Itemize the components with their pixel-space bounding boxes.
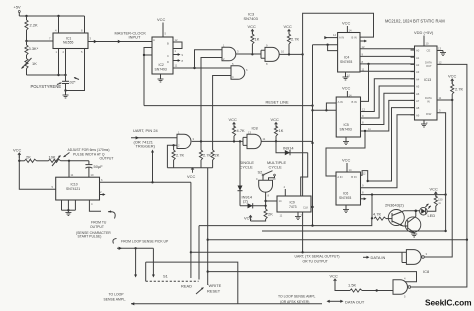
label SINGLE CYCLE <box>240 160 255 169</box>
svg-text:VCC: VCC <box>430 187 439 192</box>
wire pins 1,2 bottom <box>59 49 66 76</box>
svg-text:12: 12 <box>439 61 442 65</box>
svg-text:B: B <box>167 42 169 46</box>
svg-text:INPUT: INPUT <box>129 35 141 40</box>
svg-text:8: 8 <box>182 59 184 63</box>
svg-text:WRITE: WRITE <box>209 283 222 288</box>
counter IC6 SN7493 <box>336 172 361 205</box>
wire IC9 top pin 4 <box>284 185 286 196</box>
svg-text:TO LOOP: TO LOOP <box>109 293 125 297</box>
wire IC4 A-IN arrow stub <box>324 33 337 39</box>
wire to pin 7 <box>25 37 53 43</box>
svg-text:A8: A8 <box>416 106 420 110</box>
diode IN914 horizontal to gate output <box>240 203 266 208</box>
svg-text:IC5: IC5 <box>344 123 349 127</box>
svg-text:9: 9 <box>362 52 364 56</box>
memory IC13 MC2102 box <box>415 46 438 120</box>
wire IC2 QD output to gates <box>173 64 231 70</box>
nand IC8a input bracket <box>243 137 247 145</box>
transistor Q2 <box>403 217 421 233</box>
svg-text:1: 1 <box>175 49 177 53</box>
resistor 2K IC10 timing <box>19 154 48 162</box>
diode IN914 series <box>276 141 308 155</box>
wire clock jog up to IC4 <box>303 13 374 54</box>
wire IC10 trigger pin to TU input <box>89 200 115 219</box>
svg-text:1K: 1K <box>255 37 260 42</box>
counter IC4 SN7493 <box>338 33 360 73</box>
ground IC9 <box>280 212 303 220</box>
svg-text:C: C <box>167 54 169 58</box>
node master-clock input label <box>115 31 147 40</box>
svg-text:IC10: IC10 <box>71 183 78 187</box>
wire bus y231 <box>262 230 446 232</box>
svg-text:VCC: VCC <box>448 74 457 79</box>
svg-text:START PULSE): START PULSE) <box>78 235 102 239</box>
resistor 4.7K transistor base <box>373 212 392 221</box>
svg-text:LED: LED <box>428 213 436 218</box>
svg-text:READ: READ <box>181 284 192 289</box>
svg-text:SN7493: SN7493 <box>339 196 351 200</box>
svg-text:3: 3 <box>193 137 195 141</box>
svg-text:A IN: A IN <box>337 175 342 179</box>
svg-text:TO LOOP SENSE AMPL: TO LOOP SENSE AMPL <box>278 295 315 299</box>
resistor 1K pullup <box>248 24 260 54</box>
svg-text:8: 8 <box>362 60 364 64</box>
wire IC4 QD to RAM A3 <box>360 67 415 71</box>
ground Q2 emitter <box>411 233 417 238</box>
wire cascade IC5 to IC6 A-in <box>326 131 365 176</box>
svg-text:VCC: VCC <box>13 148 22 153</box>
svg-text:4: 4 <box>404 277 406 281</box>
svg-text:13: 13 <box>248 131 251 135</box>
svg-text:SN74121: SN74121 <box>66 187 80 191</box>
svg-text:A3: A3 <box>416 70 420 74</box>
wire IC4 QA stub arrow <box>360 40 367 43</box>
svg-text:2K: 2K <box>215 153 220 158</box>
svg-text:9: 9 <box>362 184 364 188</box>
VCC for IC4 <box>342 21 352 33</box>
wire data out bus y239.7 <box>208 239 468 241</box>
svg-text:8: 8 <box>268 194 270 198</box>
svg-text:S1: S1 <box>163 274 168 279</box>
label VDD <box>414 30 434 46</box>
resistor 150 LED supply <box>427 187 443 212</box>
svg-text:CLK: CLK <box>303 206 308 210</box>
wire IC3c output <box>279 53 303 55</box>
svg-text:VCC: VCC <box>342 21 351 26</box>
svg-text:10: 10 <box>281 50 284 54</box>
power VCC below 2K <box>244 216 253 222</box>
wire RAM R/W line <box>437 109 447 233</box>
wire IC9 clock stub <box>311 206 313 208</box>
svg-text:SeekIC.com: SeekIC.com <box>425 297 471 307</box>
svg-text:VCC: VCC <box>187 174 196 179</box>
wire IC2 QB stub <box>173 53 184 57</box>
svg-text:2.7K: 2.7K <box>291 37 300 42</box>
svg-text:+5V: +5V <box>14 5 22 10</box>
wire collector node to LED <box>404 210 420 217</box>
wire WRITE vertical v6 <box>207 168 222 294</box>
svg-text:MC2102, 1024 BIT STATIC RAM: MC2102, 1024 BIT STATIC RAM <box>385 19 445 24</box>
svg-text:VCC: VCC <box>342 86 351 91</box>
svg-text:7473: 7473 <box>289 205 297 209</box>
nand IC3a <box>222 44 239 62</box>
power +5V <box>14 5 22 17</box>
wire IC6 QC down to transistor base node <box>371 195 373 220</box>
svg-text:OUT: OUT <box>426 64 432 68</box>
wire RAM DATA IN node <box>437 96 453 101</box>
svg-text:2.7K: 2.7K <box>203 153 212 158</box>
svg-text:6: 6 <box>246 68 248 72</box>
svg-text:Ω: Ω <box>439 202 441 205</box>
diode IN914 (2) vertical branch <box>238 141 253 205</box>
wire gate2 lower input from vertical 213 <box>213 76 231 151</box>
counter IC2 SN7493 <box>152 37 173 74</box>
label to loop sense ampl (afsk) <box>278 295 315 304</box>
svg-text:4: 4 <box>55 29 57 33</box>
svg-text:5: 5 <box>52 185 54 189</box>
svg-text:4: 4 <box>232 75 234 79</box>
wire sense loop bar <box>146 262 238 304</box>
svg-text:2.7K: 2.7K <box>455 87 464 92</box>
svg-text:2K: 2K <box>268 212 273 217</box>
wire IC5 QB to RAM A5 <box>361 86 415 118</box>
svg-text:14: 14 <box>279 199 282 203</box>
svg-text:2K: 2K <box>26 154 31 159</box>
svg-text:A IN: A IN <box>338 100 343 104</box>
resistor 2K pullup <box>211 150 220 168</box>
wire +5V rail <box>19 15 84 17</box>
wire VCC bar <box>167 168 212 179</box>
svg-text:5: 5 <box>81 50 83 54</box>
svg-text:2: 2 <box>63 50 65 54</box>
wire IC6 QA loop to RAM A8 <box>361 108 415 183</box>
svg-text:A0: A0 <box>416 49 420 53</box>
svg-text:IN914: IN914 <box>283 145 294 150</box>
switch S1 <box>146 274 199 282</box>
resistor 2.7K pullup <box>284 24 300 54</box>
svg-text:12: 12 <box>362 108 365 112</box>
svg-text:IC13: IC13 <box>424 78 431 82</box>
resistor 2.7K data pullup <box>448 74 464 101</box>
svg-text:VDD (+5V): VDD (+5V) <box>414 30 434 35</box>
svg-text:VCC: VCC <box>284 24 293 29</box>
svg-text:2N3643(2): 2N3643(2) <box>385 203 404 208</box>
svg-text:IC6: IC6 <box>343 192 348 196</box>
svg-text:IC8: IC8 <box>252 126 258 131</box>
wire IC4 QA to RAM A0 <box>360 45 415 49</box>
svg-text:9: 9 <box>256 177 258 181</box>
svg-text:3: 3 <box>439 109 441 113</box>
svg-text:1.5K: 1.5K <box>348 283 357 288</box>
svg-text:SN7493: SN7493 <box>155 68 167 72</box>
wire IC5 clock from central vertical <box>313 103 337 112</box>
VCC for IC5 <box>342 86 352 98</box>
nand IC9 input gate (vertical) <box>256 177 276 198</box>
svg-text:10: 10 <box>347 74 350 78</box>
ground IC4 <box>343 72 351 80</box>
svg-text:VCC: VCC <box>248 24 257 29</box>
svg-text:UART, (TX SERIAL OUTPUT): UART, (TX SERIAL OUTPUT) <box>295 255 340 259</box>
svg-text:A2: A2 <box>416 63 420 67</box>
wire IC9 J input <box>266 200 277 202</box>
svg-text:VCC: VCC <box>271 117 280 122</box>
svg-text:2: 2 <box>100 190 102 194</box>
svg-text:10: 10 <box>426 42 429 46</box>
resistor 4.7K IC8a pullup <box>229 117 246 141</box>
wire pins 4,8 top <box>59 16 85 33</box>
svg-text:11: 11 <box>71 173 74 177</box>
label UART PIN 24 <box>133 128 159 149</box>
svg-text:A7: A7 <box>416 99 420 103</box>
label UART TX serial <box>295 255 340 264</box>
wire diode path to IC9 J input <box>301 153 308 196</box>
nand IC3c input bracket <box>261 50 265 58</box>
svg-text:TRIGGER): TRIGGER) <box>136 144 156 149</box>
wire clock vertical down to data gate <box>302 54 304 252</box>
ground IC5 <box>343 137 349 145</box>
wire IC4 QB to RAM A1 <box>360 52 415 56</box>
svg-text:2: 2 <box>178 143 180 147</box>
svg-text:8: 8 <box>362 121 364 125</box>
wire cascade IC4 to IC5 B-in <box>361 64 369 102</box>
svg-text:4: 4 <box>91 202 93 206</box>
svg-text:10: 10 <box>91 173 94 177</box>
svg-text:S2: S2 <box>258 169 263 174</box>
svg-text:11: 11 <box>439 96 442 100</box>
svg-text:B IN: B IN <box>351 175 356 179</box>
svg-text:SN7403: SN7403 <box>244 16 258 21</box>
svg-text:14: 14 <box>333 33 336 37</box>
resistor 2.7K pullup on IC7 output <box>199 150 211 168</box>
wire data-in gate output to RAM <box>424 100 452 257</box>
svg-text:11: 11 <box>280 214 283 218</box>
wire IC2 QC stub <box>173 59 184 63</box>
wire IC10 Qbar stub <box>100 190 106 196</box>
wire IC7 input2 to VCC bar <box>167 144 177 168</box>
wire IC6 QC to R/W vertical <box>361 191 447 196</box>
wire gate output down <box>264 192 266 209</box>
ground IC2 <box>158 74 164 82</box>
svg-text:5: 5 <box>404 295 406 299</box>
wire to loop sense ampl <box>104 293 323 306</box>
capacitor 50uF <box>85 161 103 177</box>
svg-text:A6: A6 <box>416 92 420 96</box>
wire serial data line y252.3 <box>191 251 402 253</box>
svg-text:3: 3 <box>426 252 428 256</box>
wire IC4 clock input <box>313 44 338 51</box>
svg-text:14: 14 <box>349 29 352 33</box>
resistor 1.5K <box>348 283 393 293</box>
wire gate1 lower input from vertical 201 <box>201 58 222 151</box>
svg-text:12: 12 <box>363 171 366 175</box>
svg-text:VCC: VCC <box>330 274 339 279</box>
wire 555 output to master clock <box>88 40 152 43</box>
switch S2 <box>258 169 276 176</box>
svg-text:IC4: IC4 <box>344 56 349 60</box>
svg-text:A IN: A IN <box>339 36 344 40</box>
svg-text:D: D <box>167 60 169 64</box>
svg-text:A4: A4 <box>416 77 420 81</box>
svg-text:.02*: .02* <box>69 80 77 85</box>
svg-text:13: 13 <box>438 47 441 51</box>
label DATA IN annotation <box>363 255 386 260</box>
wire RAM CE to ground <box>437 47 446 56</box>
svg-text:8: 8 <box>266 62 268 66</box>
svg-text:UART, PIN 24: UART, PIN 24 <box>133 128 159 133</box>
wire IC8a output <box>262 140 313 142</box>
resistor 1K IC8a pullup <box>271 117 284 141</box>
svg-text:R/W: R/W <box>426 112 432 116</box>
svg-text:11: 11 <box>263 137 266 141</box>
svg-text:50µF: 50µF <box>94 164 104 169</box>
svg-text:1K: 1K <box>279 128 284 133</box>
svg-text:3: 3 <box>90 37 92 41</box>
wire IC6 QD stub arrow <box>361 197 367 200</box>
svg-text:(2): (2) <box>243 199 249 204</box>
svg-text:NE555: NE555 <box>63 41 73 45</box>
ground IC6 <box>343 205 349 213</box>
svg-text:SENSE AMPL.: SENSE AMPL. <box>104 298 126 302</box>
trimmer 10K <box>49 154 89 166</box>
flip-flop IC9 7473 <box>277 196 311 212</box>
svg-text:CE: CE <box>427 49 431 53</box>
svg-text:A: A <box>153 38 155 42</box>
svg-text:4: 4 <box>284 185 286 189</box>
svg-text:4.7K: 4.7K <box>373 212 382 217</box>
trimmer 1K <box>22 55 38 75</box>
power VCC IC10 <box>13 148 56 190</box>
svg-text:11: 11 <box>368 127 371 131</box>
wire bus y225 to transistor node <box>199 218 372 227</box>
svg-text:VCC: VCC <box>157 17 166 22</box>
svg-text:DATA IN: DATA IN <box>371 255 386 260</box>
label from TU output <box>76 221 111 239</box>
wire IC5 QD to RAM A7 <box>361 100 415 132</box>
label data out with arrows <box>327 299 365 304</box>
wire UART input to IC7 gate <box>131 136 177 139</box>
nand data-in gate input bracket <box>402 252 406 262</box>
wire loop sense input <box>117 247 155 278</box>
switch read-write arm <box>196 288 204 295</box>
svg-text:IC8: IC8 <box>423 269 429 274</box>
ground RAM <box>421 120 428 127</box>
monostable IC10 SN74121 <box>56 177 100 200</box>
op IC1 NE555 box <box>53 29 92 55</box>
capacitor 0.02 polystyrene <box>31 75 80 91</box>
svg-text:1K: 1K <box>32 61 37 66</box>
svg-text:SN7493: SN7493 <box>340 128 352 132</box>
wire gate1 output to IC3c <box>236 53 261 55</box>
svg-text:4.7K: 4.7K <box>237 128 246 133</box>
wire write gate output to data-out line <box>411 240 467 287</box>
wire IC10 Q output <box>100 178 191 184</box>
svg-text:8: 8 <box>81 29 83 33</box>
svg-text:CYCLE: CYCLE <box>240 164 254 169</box>
svg-text:OR TU OUTPUT: OR TU OUTPUT <box>303 260 328 264</box>
resistor 2.7K on IC7 input <box>172 145 185 168</box>
label adjust note <box>64 148 114 161</box>
svg-text:VCC: VCC <box>229 117 238 122</box>
svg-text:A1: A1 <box>416 56 420 60</box>
resistor 2K below gate <box>251 209 274 221</box>
nand IC8a <box>247 131 266 149</box>
nand data-in gate IC8b <box>406 250 427 265</box>
svg-text:RESET: RESET <box>207 289 221 294</box>
svg-text:6: 6 <box>101 178 103 182</box>
svg-text:2.2K: 2.2K <box>30 23 39 28</box>
svg-text:9: 9 <box>182 53 184 57</box>
svg-text:OUTPUT: OUTPUT <box>90 225 104 229</box>
svg-text:3.3K*: 3.3K* <box>29 46 39 51</box>
svg-text:9: 9 <box>362 114 364 118</box>
svg-text:CYCLE: CYCLE <box>269 164 283 169</box>
svg-text:3: 3 <box>237 50 239 54</box>
ground IC10 pins <box>62 200 76 216</box>
svg-text:SN7493: SN7493 <box>340 60 352 64</box>
svg-text:7: 7 <box>49 37 51 41</box>
svg-text:B IN: B IN <box>352 100 357 104</box>
wire reset line <box>144 100 314 107</box>
svg-text:2.7K: 2.7K <box>176 153 185 158</box>
resistor 3.3K* <box>25 41 39 55</box>
wire S1 right vertical v5 <box>198 226 200 280</box>
wire pin 11 down <box>69 161 74 177</box>
svg-text:14: 14 <box>349 168 352 172</box>
wire IC6 QB to RAM A9 <box>361 115 415 188</box>
label MULTIPLE CYCLE <box>267 160 286 169</box>
ground below cap <box>63 91 69 99</box>
svg-text:(OR AFSK KEYER): (OR AFSK KEYER) <box>280 300 309 304</box>
resistor 2.2K <box>25 16 38 41</box>
svg-text:VCC: VCC <box>342 158 351 163</box>
svg-text:150: 150 <box>438 198 443 202</box>
wire central clock/reset vertical <box>311 45 313 226</box>
svg-text:IC2: IC2 <box>159 63 164 67</box>
label IC3 SN7403 <box>244 12 258 22</box>
nand IC7 <box>177 131 195 149</box>
svg-text:10: 10 <box>273 177 276 181</box>
nand write gate IC8c <box>393 277 411 299</box>
svg-text:B IN: B IN <box>352 36 357 40</box>
wire pin5 to cap bottom <box>64 49 84 92</box>
wire IC2 reset pins to reset line <box>143 48 152 106</box>
wire IC4 QC to RAM A2 <box>360 60 415 65</box>
wire IC5 QC to RAM A6 <box>361 93 415 124</box>
svg-text:11: 11 <box>362 67 365 71</box>
wire S2 contacts down to gate inputs <box>263 176 275 180</box>
svg-text:IC9: IC9 <box>290 201 295 205</box>
wire IC2 QA to B-in bracket <box>173 38 182 53</box>
VCC for IC6 <box>342 158 352 173</box>
diode LED <box>420 204 436 218</box>
svg-text:5: 5 <box>165 32 167 36</box>
svg-text:DATA OUT: DATA OUT <box>345 299 365 304</box>
svg-text:A9: A9 <box>416 113 420 117</box>
svg-text:1: 1 <box>56 50 58 54</box>
svg-text:FROM LOOP SENSE PICK UP: FROM LOOP SENSE PICK UP <box>121 240 169 244</box>
svg-text:11: 11 <box>175 64 178 68</box>
wire node QD up to gate1 input <box>195 50 223 68</box>
RAM address pin ticks <box>411 50 415 115</box>
svg-text:IN: IN <box>427 99 430 103</box>
wire S1 left arm from sense loop <box>145 262 147 281</box>
nand IC3c <box>265 44 284 66</box>
counter IC5 SN7493 <box>336 97 360 137</box>
svg-text:A5: A5 <box>416 85 420 89</box>
wire IC7 output line to IC8a <box>192 140 243 142</box>
wire RAM DATA OUT down right edge <box>437 61 467 240</box>
